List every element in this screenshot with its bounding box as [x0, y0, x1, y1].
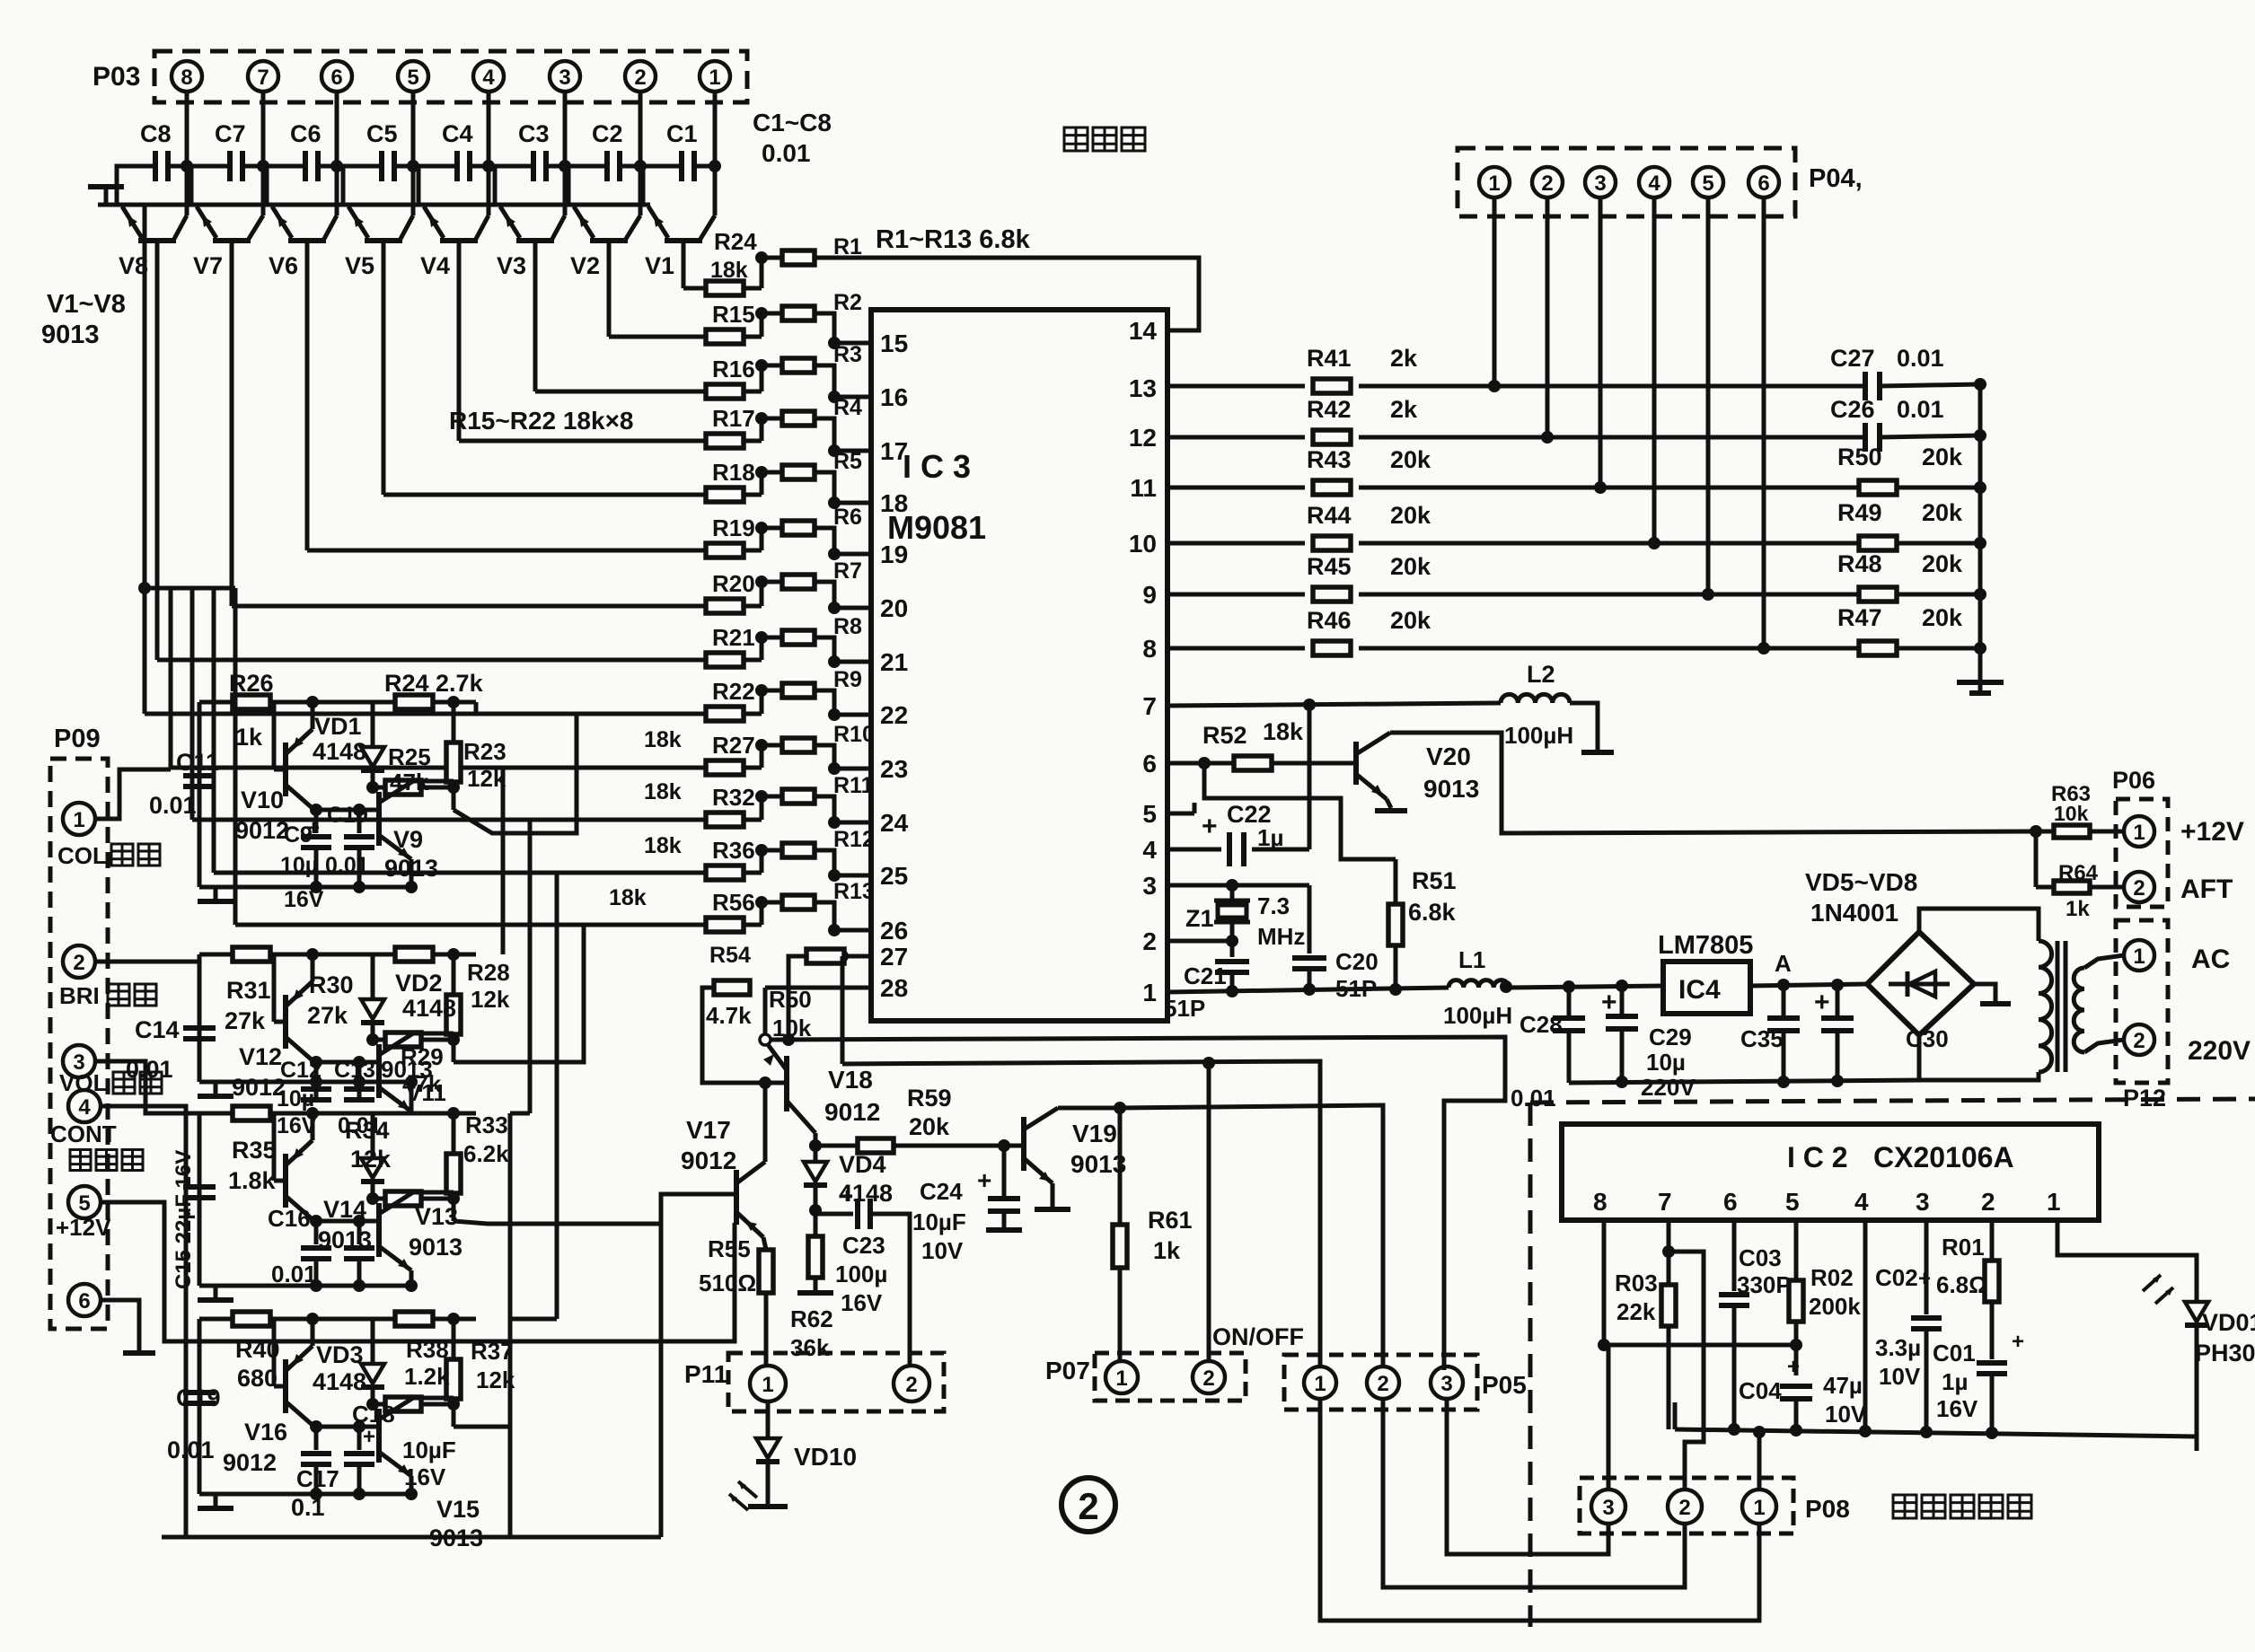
connector P03 pin 3 circle	[550, 61, 580, 92]
wire bridge top to transformer	[1919, 909, 2039, 941]
connector P11 pin 1 circle	[750, 1366, 786, 1402]
svg-text:5: 5	[78, 1191, 90, 1216]
wire bridge right vertex ground hook	[1974, 984, 1995, 1002]
svg-text:V12: V12	[239, 1043, 282, 1070]
wire R6 to IC3 pin	[815, 528, 871, 554]
resistor R21 18k	[706, 653, 744, 667]
svg-text:15: 15	[880, 330, 908, 357]
wire IC3 pin 2 stub	[1167, 939, 1232, 944]
svg-text:10V: 10V	[1825, 1401, 1867, 1428]
joint vertical R16/R3	[760, 365, 764, 391]
power bottom rail wire	[1569, 1080, 1923, 1083]
wire joint to resistor R12	[762, 848, 782, 853]
diode VD3 4148	[371, 1319, 375, 1362]
resistor R44 20k	[1313, 536, 1351, 550]
connector P03 pin 6 circle	[322, 61, 352, 92]
wire joint to resistor R5	[762, 470, 782, 475]
svg-text:V17: V17	[686, 1116, 731, 1144]
wire V11 collector output to R56 row	[454, 925, 584, 1062]
wire P05 pin3 hook to P08 pin3	[1447, 1399, 1608, 1554]
capacitor C28 0.01	[1567, 987, 1572, 1015]
transistor V19 9013	[1021, 1117, 1026, 1171]
capacitor C35	[1782, 985, 1786, 1015]
resistor R52 18k	[1234, 756, 1272, 770]
svg-text:0.01: 0.01	[271, 1261, 317, 1287]
svg-text:0.01: 0.01	[167, 1437, 215, 1463]
svg-text:25: 25	[880, 862, 908, 890]
svg-text:C27: C27	[1830, 345, 1875, 372]
svg-text:R50: R50	[1837, 444, 1882, 470]
resistor R4 6.8k	[782, 411, 815, 426]
wire joint to resistor R6	[762, 526, 782, 531]
svg-text:VD2: VD2	[395, 970, 443, 997]
wire R42 to right	[1359, 435, 1858, 440]
wire R54 right to rail A (open node)	[763, 988, 768, 1033]
svg-text:R32: R32	[712, 784, 755, 811]
svg-text:+12V: +12V	[56, 1214, 111, 1241]
resistor R6 6.8k	[782, 521, 815, 535]
wire C3 left to bus	[495, 166, 533, 205]
joint vertical R22/R9	[760, 690, 764, 714]
svg-text:PH302: PH302	[2195, 1340, 2255, 1366]
svg-text:20k: 20k	[1390, 446, 1431, 473]
right bus vertical wire	[1978, 381, 1983, 672]
transistor V12 (PNP 9012)	[283, 995, 288, 1049]
wire joint to resistor R1	[762, 256, 782, 260]
svg-text:1: 1	[709, 66, 720, 90]
wire P03 pin 8 down / cap right	[185, 92, 189, 215]
svg-text:0.01: 0.01	[762, 139, 811, 167]
stage ground	[214, 1082, 218, 1094]
wire V12 emitter to rail	[311, 954, 315, 981]
svg-text:7: 7	[257, 66, 269, 90]
wire R54 left to V18 base	[702, 988, 787, 1083]
svg-text:2: 2	[73, 951, 84, 975]
stage ground	[214, 1286, 218, 1298]
svg-text:R47: R47	[1837, 604, 1882, 631]
junction dot on right bus	[1974, 378, 1986, 391]
svg-text:I C 3: I C 3	[903, 448, 971, 485]
svg-text:24: 24	[880, 809, 909, 837]
svg-text:R27: R27	[712, 732, 755, 759]
wire IC3 pin 5 stub	[1167, 812, 1194, 816]
wire C6 left to bus	[267, 166, 305, 205]
svg-text:C3: C3	[518, 120, 550, 147]
resistor R15 18k	[706, 330, 744, 344]
capacitor C17 - electrolytic	[314, 1427, 319, 1450]
svg-text:+: +	[1601, 988, 1617, 1017]
svg-text:R33: R33	[465, 1112, 508, 1138]
wire V9 collector output to R22 row	[454, 714, 577, 833]
svg-text:V13: V13	[415, 1203, 458, 1230]
svg-text:R11: R11	[833, 773, 874, 798]
svg-text:16V: 16V	[284, 887, 324, 912]
connector P03 dashed box	[154, 51, 747, 102]
wire P04 pin 4 down	[1652, 198, 1657, 543]
wire R15 to joint	[744, 335, 762, 339]
svg-text:12k: 12k	[471, 986, 510, 1013]
svg-text:R54: R54	[709, 943, 751, 968]
svg-text:3: 3	[1594, 171, 1606, 196]
resistor R18 18k	[706, 488, 744, 502]
connector P05 pin 1 circle	[1304, 1366, 1336, 1399]
wire P03 pin 2 down / cap right	[639, 92, 643, 215]
capacitor C20 51P	[1308, 885, 1312, 953]
svg-text:ON/OFF: ON/OFF	[1212, 1323, 1304, 1350]
svg-text:R43: R43	[1307, 446, 1352, 473]
svg-text:R22: R22	[712, 678, 755, 705]
capacitor C19 0.01	[183, 1390, 216, 1395]
wire R27 to joint	[744, 766, 762, 770]
svg-text:9012: 9012	[681, 1147, 736, 1174]
svg-text:18k: 18k	[710, 258, 748, 283]
wire P09 pin6 to ground	[101, 1300, 139, 1351]
resistor R51 6.8k	[1388, 904, 1403, 945]
connector P06 pin 1 circle	[2124, 816, 2154, 847]
svg-text:MHz: MHz	[1257, 923, 1305, 950]
wire joint to resistor R9	[762, 689, 782, 693]
resistor R64 1k	[2034, 831, 2039, 887]
joint vertical R20/R7	[760, 582, 764, 606]
svg-text:C01: C01	[1933, 1340, 1976, 1366]
wire row R24 left segment	[683, 286, 706, 291]
wire V17 collector up to V18 base node	[763, 1083, 768, 1162]
stage ground	[214, 1494, 218, 1507]
svg-text:26: 26	[880, 917, 908, 945]
svg-text:R23: R23	[463, 738, 506, 765]
svg-text:C03: C03	[1739, 1244, 1782, 1271]
svg-text:1: 1	[1753, 1496, 1765, 1520]
wire joint to resistor R2	[762, 312, 782, 316]
wire V10 collector node	[314, 808, 379, 813]
svg-text:VD01: VD01	[2202, 1309, 2255, 1336]
wire C24 node	[998, 1139, 1010, 1152]
svg-text:20k: 20k	[1390, 553, 1431, 580]
svg-text:12: 12	[1129, 424, 1157, 452]
resistor R33 6.2k vertical right	[452, 1113, 456, 1154]
svg-text:+: +	[1814, 988, 1830, 1017]
svg-text:20k: 20k	[1922, 499, 1963, 526]
svg-text:10V: 10V	[921, 1237, 964, 1264]
transistor V16 (PNP 9012)	[283, 1359, 288, 1413]
svg-text:2: 2	[2133, 876, 2145, 901]
wire V16 collector node	[314, 1425, 379, 1429]
svg-text:C2: C2	[592, 120, 623, 147]
svg-text:V19: V19	[1072, 1120, 1117, 1147]
svg-text:4148: 4148	[313, 738, 366, 765]
svg-text:9013: 9013	[318, 1226, 372, 1253]
svg-text:C19: C19	[176, 1384, 221, 1411]
svg-text:VOL: VOL	[59, 1069, 108, 1096]
wire pin8 to pin5 horizontal	[1604, 1343, 1796, 1348]
svg-text:R46: R46	[1307, 607, 1352, 634]
svg-text:10µF: 10µF	[912, 1208, 966, 1235]
resistor R7 6.8k	[782, 575, 815, 589]
wire IC3 pin 13 row	[1167, 384, 1305, 389]
svg-text:R9: R9	[833, 667, 862, 692]
svg-text:R16: R16	[712, 356, 755, 382]
svg-text:C17: C17	[296, 1465, 339, 1492]
connector P06 pin 2 circle	[2124, 872, 2154, 902]
wire joint to resistor R10	[762, 743, 782, 748]
wire R8 to IC3 pin	[815, 637, 871, 662]
wire V5 base vertical to ladder row	[382, 241, 386, 248]
resistor R16 18k	[706, 384, 744, 399]
joint vertical R24/R1	[760, 258, 764, 288]
photo arrows of VD01	[2143, 1275, 2161, 1291]
wire V6 base vertical to ladder row	[305, 241, 310, 248]
svg-text:A: A	[1775, 950, 1792, 977]
ground at VD10	[748, 1504, 788, 1509]
svg-text:2: 2	[1078, 1485, 1098, 1527]
ground at bottom of right bus	[1978, 672, 1983, 681]
wire P03 pin 7 down / cap right	[261, 92, 266, 215]
wire R50 left down to rail A	[788, 956, 806, 1040]
svg-text:C18: C18	[352, 1401, 395, 1428]
svg-text:16V: 16V	[1936, 1395, 1978, 1422]
connector P09 pin 4 circle	[68, 1090, 101, 1122]
svg-text:+: +	[363, 1425, 375, 1449]
svg-text:R36: R36	[712, 837, 755, 864]
wire P04 pin 6 down	[1762, 198, 1766, 648]
wire IC3 pin 3 row	[1167, 883, 1309, 888]
wire V15 collector output to bus	[454, 1425, 510, 1429]
svg-text:C13: C13	[334, 1058, 375, 1083]
resistor R48 20k	[1859, 587, 1897, 602]
wire row R21 left segment	[157, 658, 706, 663]
svg-text:V1~V8: V1~V8	[47, 290, 126, 319]
connector P03 pin 4 circle	[473, 61, 504, 92]
transistor V10 (PNP 9012)	[283, 743, 288, 796]
svg-text:4148: 4148	[313, 1368, 366, 1395]
wire V10 base from rail	[272, 702, 277, 769]
svg-text:5: 5	[1142, 800, 1157, 828]
svg-text:R25: R25	[388, 743, 431, 770]
svg-text:C24: C24	[920, 1178, 963, 1205]
transistor V5 9013	[365, 238, 402, 243]
connector P03 pin 8 circle	[172, 61, 202, 92]
wire V12 collector node	[314, 1060, 379, 1065]
capacitor C10 0.01	[357, 810, 362, 833]
wire web vertical to R36 row	[212, 588, 216, 873]
wire V17 emitter to R55	[763, 1237, 766, 1250]
wire pin7 branch to P08 pin2	[1669, 1252, 1704, 1490]
joint vertical R21/R8	[760, 637, 764, 660]
svg-text:3: 3	[559, 66, 570, 90]
svg-text:R24 2.7k: R24 2.7k	[384, 670, 484, 697]
svg-text:V10: V10	[241, 786, 284, 813]
resistor R32 18k	[706, 813, 744, 827]
connector P04 pin 6 circle	[1749, 167, 1779, 198]
label 红外接收器 (IR receiver)	[1893, 1495, 1916, 1518]
junction dot on right bus	[1974, 429, 1986, 442]
svg-text:100µH: 100µH	[1443, 1002, 1512, 1029]
svg-text:220V: 220V	[2188, 1036, 2251, 1066]
svg-text:2: 2	[1142, 927, 1157, 955]
svg-text:6: 6	[1757, 171, 1769, 196]
svg-text:C8: C8	[140, 120, 172, 147]
svg-text:R30: R30	[309, 971, 354, 998]
svg-text:VD3: VD3	[316, 1341, 364, 1368]
joint vertical R36/R12	[760, 850, 764, 873]
connector P03 pin 7 circle	[248, 61, 278, 92]
svg-text:10: 10	[1129, 530, 1157, 558]
svg-text:0.01: 0.01	[149, 792, 197, 819]
svg-text:10µF: 10µF	[402, 1437, 456, 1463]
wire V7 base vertical to ladder row	[230, 241, 234, 248]
resistor R36 18k	[706, 866, 744, 880]
resistor R11 6.8k	[782, 789, 815, 804]
svg-text:27k: 27k	[225, 1007, 266, 1034]
wire P05 pin2 hook to P08 pin2	[1383, 1399, 1685, 1587]
label 亮度 (brightness)	[108, 984, 129, 1006]
wire V11 emitter down to rail	[410, 1082, 414, 1112]
svg-text:I C 2: I C 2	[1787, 1141, 1848, 1173]
resistor R22 18k	[706, 707, 744, 721]
svg-text:18k: 18k	[644, 727, 682, 752]
wire joint to resistor R8	[762, 636, 782, 640]
wire row R15 left segment	[609, 335, 706, 339]
wire V17 base vertical down	[659, 1224, 664, 1537]
capacitor Cx -	[357, 1221, 362, 1244]
svg-text:2: 2	[1981, 1188, 1995, 1216]
svg-text:R7: R7	[833, 558, 862, 584]
wire P03 pin 4 down / cap right	[487, 92, 491, 215]
transistor V4 9013	[440, 238, 478, 243]
resistor R50 20k	[1859, 480, 1897, 495]
label 音量 (volume)	[113, 1072, 135, 1094]
svg-text:9013: 9013	[1423, 775, 1479, 803]
svg-text:20k: 20k	[909, 1113, 950, 1140]
svg-text:9013: 9013	[409, 1234, 462, 1261]
svg-text:1: 1	[2133, 945, 2145, 969]
resistor R3 6.8k	[782, 358, 815, 373]
wire V19 emitter ground	[1051, 1183, 1055, 1208]
svg-text:4148: 4148	[402, 995, 456, 1022]
resistor R10 6.8k	[782, 738, 815, 752]
wire stage4 input from R36 row	[555, 873, 559, 1319]
connector P09 pin 2 circle	[63, 945, 95, 978]
svg-text:C1: C1	[666, 120, 698, 147]
wire R13 to IC3 pin	[815, 902, 871, 930]
svg-text:18k: 18k	[1263, 718, 1304, 745]
svg-text:220V: 220V	[1641, 1074, 1696, 1101]
svg-text:18k: 18k	[609, 885, 647, 910]
bridge inner diode	[1889, 982, 1950, 987]
wire web horizontal y655	[145, 586, 235, 591]
svg-text:C35: C35	[1740, 1025, 1784, 1052]
stage top rail wire y=1469	[199, 1317, 476, 1322]
transistor V18 9012	[784, 1056, 789, 1112]
wire V16 emitter to rail	[311, 1319, 315, 1346]
svg-text:V7: V7	[193, 252, 223, 279]
svg-text:Z1: Z1	[1185, 905, 1214, 932]
wire R20 to joint	[744, 604, 762, 609]
svg-text:C04: C04	[1739, 1377, 1782, 1404]
svg-text:C29: C29	[1649, 1024, 1692, 1050]
svg-text:R3: R3	[833, 342, 862, 367]
svg-text:R13: R13	[833, 879, 875, 904]
wire stage1 input from R22 row	[474, 702, 479, 714]
transformer core	[2056, 941, 2060, 1072]
svg-text:AC: AC	[2191, 945, 2230, 974]
svg-text:17: 17	[880, 437, 908, 465]
capacitor C18 10uF	[357, 1427, 362, 1450]
svg-text:VD5~VD8: VD5~VD8	[1805, 868, 1917, 896]
diode VD4 4148	[814, 1146, 818, 1160]
svg-text:R45: R45	[1307, 553, 1352, 580]
wire V15 collector to right vertical	[413, 1396, 454, 1401]
wire IC2 pin 6 down	[1732, 1220, 1737, 1291]
wire R52 to V20 base	[1272, 761, 1356, 766]
transistor V2 9013	[590, 238, 628, 243]
wire R46 to right	[1359, 646, 1980, 651]
svg-text:C02: C02	[1875, 1264, 1918, 1291]
svg-text:R64: R64	[2058, 861, 2099, 885]
transistor V3 9013	[516, 238, 554, 243]
svg-text:C26: C26	[1830, 396, 1875, 423]
wire R41 to right	[1359, 384, 1858, 389]
svg-text:R4: R4	[833, 395, 862, 420]
wire R56 to joint	[744, 923, 762, 927]
svg-text:V18: V18	[828, 1066, 873, 1094]
svg-text:R61: R61	[1148, 1207, 1193, 1234]
rail B wire to P05 pin1	[842, 1061, 1320, 1368]
page number circle 2	[1061, 1478, 1115, 1532]
wire V19 collector node	[1058, 1106, 1120, 1111]
svg-text:+: +	[1918, 1267, 1931, 1291]
svg-text:R17: R17	[712, 405, 755, 432]
diode VD01 PH302	[2185, 1302, 2208, 1322]
svg-text:20k: 20k	[1922, 604, 1963, 631]
svg-text:R44: R44	[1307, 502, 1352, 529]
svg-text:V20: V20	[1426, 743, 1471, 770]
svg-text:2: 2	[2133, 1029, 2145, 1053]
wire row R17 left segment	[459, 439, 706, 444]
svg-text:4.7k: 4.7k	[706, 1002, 752, 1029]
svg-text:23: 23	[880, 755, 908, 783]
svg-text:L1: L1	[1458, 946, 1485, 973]
svg-text:V4: V4	[420, 252, 450, 279]
wire row R16 left segment	[535, 390, 706, 394]
capacitor C30	[1836, 985, 1840, 1015]
LED arrows of VD10	[738, 1481, 757, 1498]
ground after L2	[1581, 750, 1614, 755]
diode VD? -	[371, 1113, 375, 1156]
resistor R5 6.8k	[782, 465, 815, 479]
svg-text:18: 18	[880, 489, 908, 517]
resistor R03 22k	[1661, 1285, 1676, 1326]
wire C4 left to bus	[418, 166, 457, 205]
svg-text:27k: 27k	[307, 1002, 348, 1029]
wire R9 to IC3 pin	[815, 690, 871, 715]
rail C wire V19 to P05 pin2	[1120, 1105, 1383, 1368]
capacitor C9 10u electrolytic	[314, 810, 319, 833]
svg-text:2: 2	[1202, 1366, 1214, 1391]
svg-text:R8: R8	[833, 614, 862, 639]
svg-text:CX20106A: CX20106A	[1873, 1141, 2014, 1173]
svg-text:R20: R20	[712, 570, 755, 597]
wire P04 pin 5 down	[1706, 198, 1711, 594]
svg-text:1: 1	[2047, 1188, 2061, 1216]
svg-text:R10: R10	[833, 722, 875, 747]
wire R32 to joint	[744, 818, 762, 822]
resistor R35 1.8k	[233, 1106, 270, 1120]
svg-text:P09: P09	[54, 725, 101, 753]
resistor R55 510ohm	[759, 1250, 773, 1293]
svg-text:+: +	[2012, 1330, 2024, 1354]
wire R5 to IC3 pin	[815, 472, 871, 503]
